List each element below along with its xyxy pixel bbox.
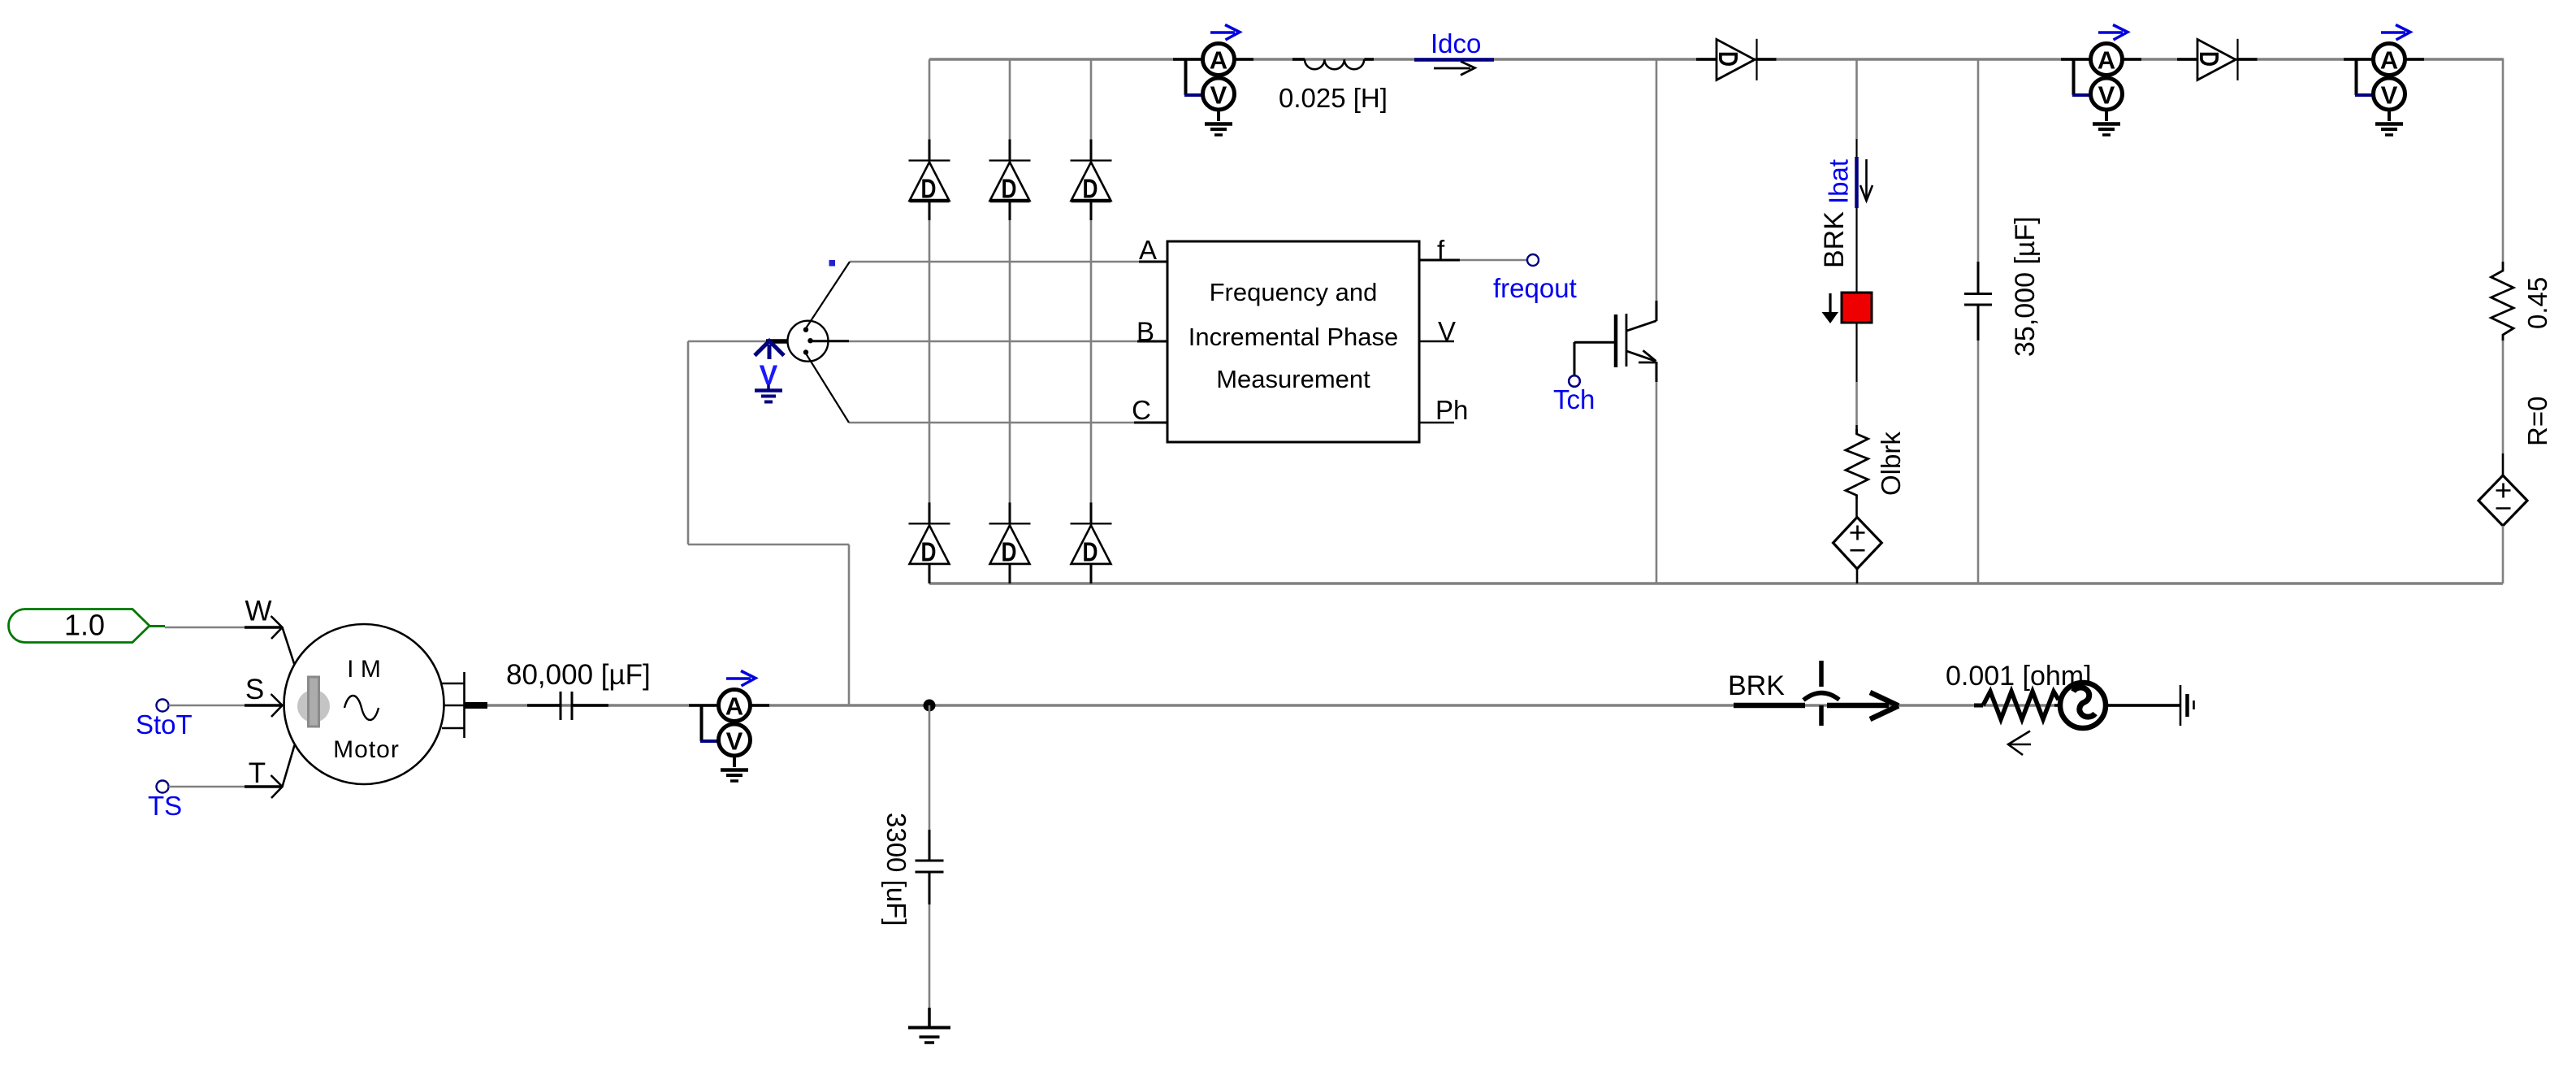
pin label C xyxy=(1132,395,1167,425)
ground below 3300uF capacitor xyxy=(908,1008,950,1043)
svg-text:A: A xyxy=(725,692,743,721)
svg-text:D: D xyxy=(1713,51,1743,67)
selector pointer arrow (navy) xyxy=(755,341,784,360)
wire top DC bus xyxy=(929,58,2503,60)
ammeter/voltmeter A V, motor rail xyxy=(689,671,769,782)
svg-text:3300 [uF]: 3300 [uF] xyxy=(881,813,911,926)
node Idco signal label xyxy=(1414,28,1494,60)
wire top bus to 0.45 resistor xyxy=(2502,59,2505,262)
svg-text:W: W xyxy=(245,596,271,627)
pin label V xyxy=(1438,316,1456,346)
current direction arrow Idco xyxy=(1434,62,1475,76)
wire main low-voltage rail xyxy=(487,704,2180,706)
value label 0.025 [H] xyxy=(1279,83,1388,113)
pin label W xyxy=(245,596,271,627)
diode D upper leg 2 xyxy=(989,140,1031,221)
constant source 1.0 (speed setpoint) xyxy=(9,609,166,643)
diode D series top 1 xyxy=(1696,39,1777,80)
wire IGBT branch vertical xyxy=(1656,59,1658,583)
svg-text:V: V xyxy=(2098,81,2115,110)
node freqout terminal xyxy=(1493,254,1577,303)
diode D lower leg 2 xyxy=(989,502,1031,583)
svg-text:freqout: freqout xyxy=(1493,273,1577,303)
wire capacitor branch upper xyxy=(1977,59,1980,293)
svg-text:Ph: Ph xyxy=(1435,395,1468,425)
wire source to ground xyxy=(2054,704,2180,707)
motor output terminal xyxy=(442,672,487,738)
breaker BRK red square xyxy=(1842,293,1872,323)
svg-text:T: T xyxy=(249,757,266,789)
dc source diamond (battery branch) with + - xyxy=(1834,518,1882,569)
svg-text:S: S xyxy=(245,674,264,705)
diode D upper leg 1 xyxy=(909,140,950,221)
node StoT terminal xyxy=(136,700,193,740)
svg-text:Idco: Idco xyxy=(1431,28,1481,59)
svg-text:Olbrk: Olbrk xyxy=(1876,432,1906,496)
wire StoT to S xyxy=(169,705,245,707)
value label R=0 (rotated) xyxy=(2522,397,2552,446)
pin label f xyxy=(1419,235,1460,265)
current direction arrow Ibat xyxy=(1860,159,1872,201)
inductor L 0.025 H xyxy=(1292,59,1374,69)
resistor 0.001 ohm xyxy=(1974,692,2059,719)
input arrow T xyxy=(245,745,295,798)
ground below selector voltmeter (navy) xyxy=(755,384,782,402)
transistor IGBT chopper Q1 xyxy=(1574,301,1656,382)
svg-text:BRK: BRK xyxy=(1819,211,1850,268)
wire phase A xyxy=(850,261,1167,263)
svg-text:Frequency and: Frequency and xyxy=(1210,278,1378,306)
svg-text:A: A xyxy=(1139,235,1157,265)
svg-text:Tch: Tch xyxy=(1553,384,1595,414)
svg-text:V: V xyxy=(2381,81,2398,110)
stub Ph output xyxy=(1419,422,1454,424)
label BRK (rail breaker) xyxy=(1728,670,1785,701)
voltmeter V (navy, selector) xyxy=(760,360,778,391)
svg-text:V: V xyxy=(1210,81,1227,110)
wire capacitor branch lower xyxy=(1977,340,1980,583)
svg-text:0.025 [H]: 0.025 [H] xyxy=(1279,83,1388,113)
node Ibat signal label xyxy=(1824,157,1857,208)
value label 0.45 (rotated) xyxy=(2522,277,2552,329)
wire rectifier column 2 xyxy=(1009,59,1011,583)
wire 0.45 to source xyxy=(2502,340,2505,475)
svg-text:BRK: BRK xyxy=(1728,670,1785,701)
pin label T xyxy=(249,757,266,789)
svg-text:Motor: Motor xyxy=(333,736,400,763)
svg-text:StoT: StoT xyxy=(136,709,193,740)
resistor Olbrk xyxy=(1846,429,1868,499)
node TS terminal xyxy=(148,781,182,822)
svg-text:R=0: R=0 xyxy=(2522,397,2552,446)
pin label A xyxy=(1139,235,1167,265)
svg-text:I M: I M xyxy=(347,656,381,683)
wire bottom DC bus xyxy=(929,582,2503,584)
svg-text:D: D xyxy=(2194,51,2224,67)
value label Olbrk (rotated) xyxy=(1876,432,1906,496)
capacitor C 35,000 uF xyxy=(1964,262,1992,340)
ground (rotated, rail end) xyxy=(2180,685,2194,726)
wire W input xyxy=(165,627,245,629)
label BRK (battery breaker, rotated) xyxy=(1819,211,1850,268)
diode D lower leg 1 xyxy=(909,502,950,583)
svg-text:V: V xyxy=(726,727,743,756)
svg-text:Measurement: Measurement xyxy=(1216,365,1370,393)
wire phase B xyxy=(849,340,1167,343)
wire BRK branch middle xyxy=(1855,323,1857,434)
svg-text:35,000 [µF]: 35,000 [µF] xyxy=(2010,216,2041,357)
svg-text:D: D xyxy=(921,174,937,204)
value label 0.001 [ohm] xyxy=(1946,661,2092,692)
block U1 Frequency and Incremental Phase Measurement xyxy=(1167,241,1419,442)
svg-text:TS: TS xyxy=(148,791,182,821)
pin label Ph xyxy=(1435,395,1468,425)
svg-text:D: D xyxy=(1083,174,1098,204)
svg-text:D: D xyxy=(1083,536,1098,566)
svg-text:D: D xyxy=(921,536,937,566)
svg-text:Incremental Phase: Incremental Phase xyxy=(1188,323,1398,351)
value label 3300 [uF] (rotated) xyxy=(881,813,911,926)
svg-text:A: A xyxy=(1210,46,1227,75)
wire rectifier column 3 xyxy=(1090,59,1093,583)
wire BRK branch upper xyxy=(1855,59,1858,293)
stub V output xyxy=(1419,340,1454,343)
node Tch gate terminal xyxy=(1553,342,1595,414)
svg-text:D: D xyxy=(1002,536,1017,566)
resistor 0.45 load xyxy=(2492,262,2514,341)
value label 35,000 [µF] (rotated) xyxy=(2010,216,2041,357)
wire 3300uF cap to ground xyxy=(929,904,931,1008)
svg-text:80,000 [µF]: 80,000 [µF] xyxy=(506,659,651,691)
wire diamond to bottom bus xyxy=(2502,526,2505,583)
wire rail to 3300uF cap xyxy=(929,705,931,830)
wire phase C xyxy=(849,422,1167,424)
svg-text:Ibat: Ibat xyxy=(1824,159,1854,204)
pin label S xyxy=(245,674,264,705)
svg-text:A: A xyxy=(2380,46,2398,75)
diode D series top 2 xyxy=(2177,39,2258,80)
input arrow W xyxy=(245,616,295,665)
svg-text:1.0: 1.0 xyxy=(64,609,105,642)
wire rectifier column 1 xyxy=(929,59,931,583)
junction dot on rail xyxy=(924,700,936,712)
ammeter/voltmeter A V, far right xyxy=(2344,25,2424,136)
ammeter/voltmeter A V with ground, DC link left xyxy=(1173,25,1253,136)
pin label B xyxy=(1136,317,1167,347)
svg-text:0.45: 0.45 xyxy=(2522,277,2552,329)
wire source to bottom bus xyxy=(1856,569,1859,583)
selector switch (phase tap) xyxy=(766,262,850,423)
wire Olbrk to source xyxy=(1855,499,1858,518)
wire f output xyxy=(1419,259,1527,262)
breaker BRK (rail switch) xyxy=(1734,661,1839,726)
wire selector to left xyxy=(688,341,849,705)
capacitor C 80,000 uF (series) xyxy=(527,692,608,720)
capacitor C 3300 uF (shunt) xyxy=(916,830,944,904)
value label 80,000 [µF] xyxy=(506,659,651,691)
input arrow S xyxy=(245,694,283,717)
node marker blue square xyxy=(829,260,836,267)
breaker state arrow (down) xyxy=(1822,293,1839,323)
svg-text:D: D xyxy=(1002,174,1017,204)
breaker flow arrow (thick right) xyxy=(1827,692,1898,719)
diode D lower leg 3 xyxy=(1071,502,1112,583)
svg-text:A: A xyxy=(2098,46,2115,75)
current direction arrow (left, under resistor) xyxy=(2008,731,2031,756)
wire TS to T xyxy=(169,786,245,788)
ac source (grid equivalent) xyxy=(2060,683,2106,728)
dc source diamond R=0 with + - xyxy=(2479,475,2527,526)
svg-text:C: C xyxy=(1132,395,1151,425)
ammeter/voltmeter A V, DC output mid xyxy=(2061,25,2141,136)
motor IM (induction machine) xyxy=(284,624,444,784)
diode D upper leg 3 xyxy=(1071,140,1112,221)
